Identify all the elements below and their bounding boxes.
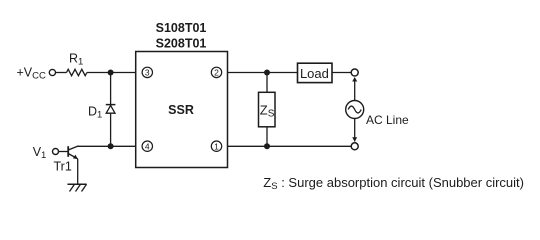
svg-text:3: 3 — [145, 68, 150, 78]
wire Zs branch lower — [266, 127, 268, 147]
terminal +Vcc input — [49, 69, 55, 75]
pin 2 — [211, 67, 221, 77]
wire top terminal to AC source — [354, 78, 356, 101]
junction dot Zs top — [264, 70, 270, 76]
pin 1 — [211, 141, 221, 151]
wire pin 2 to Load — [228, 72, 298, 74]
wire Load to top terminal — [332, 72, 351, 74]
transistor Q1 Tr1 — [68, 146, 78, 159]
svg-text:1: 1 — [214, 141, 219, 151]
impedance Zs box — [259, 92, 276, 127]
pin 4 — [142, 141, 152, 151]
diode D1 — [106, 105, 116, 114]
AC source — [346, 101, 364, 119]
svg-text:2: 2 — [214, 68, 219, 78]
svg-text:Tr1: Tr1 — [54, 160, 72, 174]
terminal V1 input — [53, 149, 59, 155]
svg-text:S208T01: S208T01 — [156, 37, 207, 51]
svg-text:S108T01: S108T01 — [156, 21, 207, 35]
op-amp U1 SSR box — [136, 52, 228, 168]
arrow up below top terminal — [352, 77, 357, 82]
terminal AC top — [351, 69, 358, 76]
ground — [68, 184, 87, 191]
junction dot node A bottom — [108, 143, 114, 149]
wire base to V1 terminal — [59, 151, 69, 153]
resistor R1 — [67, 69, 87, 75]
load box — [298, 63, 333, 82]
wire AC source to bottom terminal — [354, 118, 356, 141]
svg-text:Load: Load — [300, 66, 329, 81]
pin 3 — [142, 67, 152, 77]
wire D1 branch vertical — [110, 73, 112, 147]
wire pin 4 to transistor collector — [78, 145, 136, 147]
junction dot Zs bottom — [264, 143, 270, 149]
wire Vcc terminal to R1 — [56, 72, 67, 74]
svg-text:ZS : Surge absorption circuit: ZS : Surge absorption circuit (Snubber c… — [263, 175, 524, 192]
svg-text:4: 4 — [145, 141, 150, 151]
wire R1 to pin 3 — [87, 72, 136, 74]
svg-text:AC Line: AC Line — [366, 113, 409, 127]
wire pin 1 to bottom terminal — [228, 145, 352, 147]
junction dot node A top — [108, 70, 114, 76]
terminal AC bottom — [351, 143, 358, 150]
wire Zs branch upper — [266, 73, 268, 93]
svg-text:SSR: SSR — [168, 103, 194, 117]
wire emitter to ground — [77, 159, 79, 184]
arrow down above bottom terminal — [352, 137, 357, 142]
